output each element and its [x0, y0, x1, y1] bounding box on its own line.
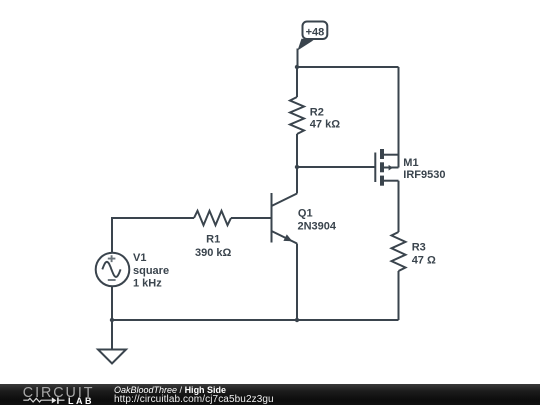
- mosfet M1: [375, 149, 445, 186]
- wire Q1 collector up: [296, 167, 298, 194]
- CircuitLab logo: [0, 383, 110, 405]
- svg-text:+48: +48: [306, 27, 325, 39]
- svg-text:M1: M1: [403, 157, 418, 169]
- +48 supply flag: [298, 22, 328, 68]
- wire top rail: [297, 66, 399, 68]
- wire V1 top to R1: [112, 218, 194, 252]
- svg-text:R1: R1: [206, 234, 220, 246]
- node bottom-left: junction dot: [110, 318, 114, 322]
- svg-text:R3: R3: [412, 242, 426, 254]
- svg-text:47 Ω: 47 Ω: [412, 255, 436, 267]
- wire gate: [297, 166, 375, 168]
- svg-text:47 kΩ: 47 kΩ: [310, 119, 340, 131]
- wire R3 bottom lead: [398, 271, 400, 320]
- wire Q1 emitter down: [296, 244, 298, 321]
- resistor R1: [194, 211, 231, 225]
- svg-text:1 kHz: 1 kHz: [133, 278, 162, 290]
- node emitter: junction dot: [295, 318, 299, 322]
- wire V1 bottom: [111, 287, 113, 320]
- transistor Q1: [272, 193, 337, 244]
- svg-text:390 kΩ: 390 kΩ: [195, 247, 232, 259]
- ground: [98, 350, 126, 364]
- source V1: [96, 252, 169, 290]
- svg-text:Q1: Q1: [298, 208, 313, 220]
- wire bottom rail: [112, 319, 399, 321]
- svg-text:V1: V1: [133, 252, 146, 264]
- svg-text:R2: R2: [310, 106, 324, 118]
- svg-text:square: square: [133, 265, 169, 277]
- wire base from R1: [231, 217, 271, 219]
- wire M1 drain down: [398, 181, 400, 232]
- resistor R2: [290, 97, 304, 134]
- footer bar: [0, 384, 540, 405]
- wire R2 top lead: [296, 67, 298, 97]
- wire to ground: [111, 320, 113, 350]
- node gate: junction dot: [295, 165, 299, 169]
- svg-text:IRF9530: IRF9530: [403, 169, 445, 181]
- svg-text:2N3904: 2N3904: [298, 221, 337, 233]
- wire right vertical to M1 source: [398, 67, 400, 168]
- wire R2 bottom lead: [296, 134, 298, 167]
- svg-text:LAB: LAB: [68, 396, 94, 405]
- node top: junction dot: [295, 65, 299, 69]
- resistor R3: [392, 232, 406, 271]
